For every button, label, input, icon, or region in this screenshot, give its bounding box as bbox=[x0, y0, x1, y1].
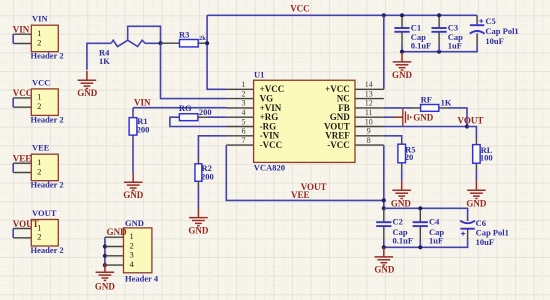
junction bottom rail / C2 ground bbox=[382, 245, 386, 249]
pin 14 of U1 (+VCC) bbox=[325, 80, 373, 94]
svg-text:VIN: VIN bbox=[13, 25, 30, 35]
svg-text:GND: GND bbox=[77, 88, 98, 98]
capacitor C2 0.1uF bbox=[376, 221, 391, 223]
resistor RF 1K bbox=[421, 105, 439, 112]
resistor RG 200 bbox=[179, 114, 198, 121]
resistor RL 100 bbox=[473, 145, 481, 164]
junction VCC rail / C1 bbox=[400, 13, 404, 17]
junction VOUT node bbox=[465, 124, 469, 128]
wire U1 pin 11 (GND) stub bbox=[384, 116, 394, 118]
resistor R5 leads bbox=[401, 139, 403, 170]
svg-text:11: 11 bbox=[365, 108, 373, 117]
svg-text:VCA820: VCA820 bbox=[254, 162, 285, 172]
resistor R3 leads bbox=[161, 42, 208, 44]
pin 10 of U1 (VOUT) bbox=[324, 117, 373, 131]
svg-text:VEE: VEE bbox=[291, 190, 310, 200]
svg-text:GND: GND bbox=[123, 190, 144, 200]
ground symbol at pin 11 (sideways) bbox=[394, 109, 434, 126]
svg-text:VEE: VEE bbox=[13, 154, 32, 164]
resistor R1 leads bbox=[132, 112, 134, 140]
svg-text:1K: 1K bbox=[99, 56, 110, 66]
svg-text:Header 2: Header 2 bbox=[31, 114, 64, 124]
svg-text:GND: GND bbox=[95, 281, 116, 291]
svg-text:GND: GND bbox=[107, 227, 128, 237]
wire net VIN to header P1 bbox=[12, 34, 14, 43]
svg-text:20: 20 bbox=[405, 152, 414, 162]
wire VCC drop to R3 node and U1 pin 1 bbox=[207, 15, 226, 89]
resistor RF leads bbox=[411, 107, 448, 109]
svg-text:1: 1 bbox=[242, 80, 246, 89]
resistor R1 200 bbox=[129, 118, 137, 136]
wire VOUT node to RL bbox=[467, 127, 476, 139]
junction VEE rail end bbox=[382, 198, 386, 202]
svg-text:GND: GND bbox=[374, 265, 395, 275]
junction P5 pin4 bbox=[103, 263, 107, 267]
resistor R5 20 bbox=[398, 144, 406, 163]
wire net VEE to header P3 bbox=[12, 163, 14, 172]
pin 7 of U1 (-VCC) bbox=[242, 136, 283, 150]
junction caps top rail / C2 bbox=[382, 206, 386, 210]
junction top rail / C4 bbox=[418, 206, 422, 210]
svg-text:10uF: 10uF bbox=[485, 36, 503, 46]
svg-text:13: 13 bbox=[365, 89, 373, 98]
capacitor C1 0.1uF bbox=[394, 27, 409, 29]
capacitor C4 1uF bbox=[413, 221, 428, 223]
wire RG left to U1 pin 5 (-RG) bbox=[170, 117, 226, 126]
svg-text:1K: 1K bbox=[441, 98, 452, 108]
svg-text:-VCC: -VCC bbox=[260, 140, 283, 150]
svg-text:200: 200 bbox=[201, 172, 214, 182]
svg-text:2: 2 bbox=[37, 101, 41, 111]
junction VCC rail / pin 14 riser bbox=[382, 13, 386, 17]
ground symbol below R5 bbox=[391, 181, 412, 209]
wire node A to U1 pin 2 (VG) bbox=[161, 43, 227, 98]
svg-text:VOUT: VOUT bbox=[32, 208, 57, 218]
svg-text:1uF: 1uF bbox=[448, 41, 462, 51]
svg-text:VOUT: VOUT bbox=[458, 116, 484, 126]
wire GND bus to header P5 bbox=[104, 237, 106, 267]
connector P2 Header 2 (VCC) bbox=[13, 89, 58, 116]
svg-text:Header 2: Header 2 bbox=[31, 51, 64, 61]
svg-text:GND: GND bbox=[391, 199, 412, 209]
wire C2 to bottom rail bbox=[383, 240, 385, 248]
svg-text:U1: U1 bbox=[254, 70, 264, 80]
svg-text:2: 2 bbox=[37, 166, 41, 176]
pin 5 of U1 (-RG) bbox=[242, 117, 277, 131]
wire U1 pin 7 (-VCC) to VEE rail bbox=[226, 145, 383, 200]
resistor R3 bbox=[180, 40, 199, 47]
svg-text:8: 8 bbox=[367, 136, 371, 145]
pin 6 of U1 (-VIN) bbox=[242, 127, 280, 141]
svg-text:2k: 2k bbox=[199, 35, 206, 42]
junction caps rail / C3 bbox=[437, 50, 441, 54]
wire R4 wiper loop bbox=[128, 26, 161, 43]
svg-text:RF: RF bbox=[421, 95, 432, 105]
svg-text:10: 10 bbox=[365, 117, 373, 126]
pin 12 of U1 (FB) bbox=[338, 99, 372, 113]
svg-text:C1: C1 bbox=[411, 22, 421, 32]
svg-text:4: 4 bbox=[242, 108, 246, 117]
junction caps rail / C1 ground bbox=[400, 50, 404, 54]
wire bottom caps bottom rail bbox=[384, 239, 468, 248]
ground symbol below RL bbox=[466, 181, 487, 209]
svg-text:C5: C5 bbox=[485, 16, 495, 26]
wire C4 to bottom rail bbox=[419, 240, 421, 248]
svg-text:2: 2 bbox=[37, 37, 41, 47]
capacitor C3 1uF bbox=[432, 27, 447, 29]
capacitor C6 Cap Pol1 10uF bbox=[460, 221, 475, 236]
pin 3 of U1 (+VIN) bbox=[242, 99, 282, 113]
node A junction (R4/R3/VG) bbox=[158, 41, 162, 45]
svg-text:4: 4 bbox=[129, 259, 134, 269]
svg-text:14: 14 bbox=[365, 80, 373, 89]
svg-text:Cap Pol1: Cap Pol1 bbox=[485, 26, 518, 36]
svg-text:9: 9 bbox=[367, 127, 371, 136]
svg-text:0.1uF: 0.1uF bbox=[411, 41, 432, 51]
ground symbol below R1 bbox=[123, 173, 144, 200]
pin 8 of U1 (-VCC) bbox=[327, 136, 370, 150]
svg-text:200: 200 bbox=[199, 107, 212, 117]
ground symbol below R4 bbox=[77, 71, 98, 98]
junction P5 pin3 bbox=[103, 254, 107, 258]
svg-text:VCC: VCC bbox=[13, 88, 33, 98]
svg-text:GND: GND bbox=[125, 218, 144, 228]
svg-text:VCC: VCC bbox=[32, 77, 50, 87]
wire U1 pin 12 (FB) to RF bbox=[384, 107, 412, 109]
svg-text:GND: GND bbox=[466, 199, 487, 209]
capacitor C4 leads bbox=[419, 210, 421, 241]
resistor R2 200 bbox=[195, 164, 202, 182]
svg-text:10uF: 10uF bbox=[476, 237, 494, 247]
connector P3 Header 2 (VEE) bbox=[13, 154, 58, 181]
svg-text:100: 100 bbox=[480, 152, 493, 162]
connector P1 Header 2 (VIN) bbox=[13, 25, 58, 52]
wire net VCC to header P2 bbox=[12, 98, 14, 107]
svg-text:C6: C6 bbox=[476, 218, 486, 228]
capacitor C6 leads bbox=[467, 220, 469, 240]
svg-text:0.1uF: 0.1uF bbox=[393, 236, 414, 246]
wire U1 pin 6 (-VIN) to R2 bbox=[198, 136, 226, 158]
resistor R2 leads bbox=[197, 158, 199, 187]
svg-text:12: 12 bbox=[365, 99, 373, 108]
wire U1 pin 9 (VREF) to R5 bbox=[384, 136, 402, 139]
svg-text:R3: R3 bbox=[179, 29, 189, 39]
capacitor C5 Cap Pol1 10uF bbox=[470, 19, 485, 34]
pin 11 of U1 (GND) bbox=[330, 108, 373, 122]
svg-text:Header 4: Header 4 bbox=[125, 274, 159, 284]
wire bottom caps top rail bbox=[384, 208, 468, 220]
capacitor C3 leads bbox=[438, 17, 440, 46]
svg-text:GND: GND bbox=[188, 225, 209, 235]
node B junction (R3/VCC) bbox=[205, 41, 209, 45]
svg-text:Header 2: Header 2 bbox=[31, 245, 64, 255]
junction bottom rail / C4 bbox=[418, 245, 422, 249]
svg-text:2: 2 bbox=[37, 232, 41, 242]
wire RG right to U1 pin 4 (+RG) bbox=[198, 116, 207, 118]
svg-text:VEE: VEE bbox=[32, 143, 50, 153]
wire VCC rail bbox=[207, 14, 477, 16]
junction VCC rail / C3 bbox=[437, 13, 441, 17]
wire RL to ground bbox=[475, 170, 477, 181]
svg-text:VIN: VIN bbox=[134, 97, 151, 107]
svg-text:C2: C2 bbox=[393, 216, 403, 226]
pin 13 of U1 (NC) bbox=[337, 89, 373, 103]
wire R1 to ground bbox=[132, 140, 134, 173]
svg-text:Cap Pol1: Cap Pol1 bbox=[476, 228, 509, 238]
pin 4 of U1 (+RG) bbox=[242, 108, 279, 122]
wire U1 pin 8 (-VCC) riser bbox=[383, 145, 385, 208]
connector P4 Header 2 (VOUT) bbox=[13, 220, 58, 247]
pin 1 of U1 (+VCC) bbox=[242, 80, 285, 94]
junction P5 pin2 bbox=[103, 244, 107, 248]
wire C3 to bottom rail bbox=[438, 45, 440, 51]
svg-text:6: 6 bbox=[242, 127, 246, 136]
wire R2 to ground bbox=[197, 186, 199, 208]
svg-text:VOUT: VOUT bbox=[13, 219, 39, 229]
connector P5 Header 4 (GND) bbox=[105, 228, 152, 273]
svg-text:-VCC: -VCC bbox=[327, 140, 350, 150]
svg-text:3: 3 bbox=[242, 99, 246, 108]
wire R4 left to ground bbox=[87, 43, 111, 70]
pin 9 of U1 (VREF) bbox=[325, 127, 370, 141]
svg-text:200: 200 bbox=[137, 125, 150, 135]
wire VCC rail to U1 pin 14 bbox=[383, 15, 385, 89]
svg-text:C3: C3 bbox=[448, 22, 458, 32]
svg-text:7: 7 bbox=[242, 136, 246, 145]
svg-text:GND: GND bbox=[413, 113, 434, 123]
ground symbol below C2 bbox=[374, 247, 395, 274]
capacitor C2 leads bbox=[383, 210, 385, 241]
svg-text:5: 5 bbox=[242, 117, 246, 126]
resistor R4 1K (pot zigzag) bbox=[111, 40, 145, 46]
resistor RL leads bbox=[475, 138, 477, 170]
wire top caps bottom rail bbox=[402, 45, 477, 51]
wire R5 to ground bbox=[401, 170, 403, 181]
op-amp U1 VCA820 body bbox=[226, 80, 383, 162]
svg-text:C4: C4 bbox=[429, 216, 440, 226]
ground symbol below C1 bbox=[392, 52, 413, 80]
ground symbol below P5 bbox=[95, 263, 116, 292]
svg-text:RG: RG bbox=[179, 103, 192, 113]
wire RF to VOUT node bbox=[448, 108, 467, 127]
svg-text:2: 2 bbox=[242, 89, 246, 98]
wire U1 pin 10 (VOUT) to node bbox=[384, 126, 467, 128]
wire R4 to node A bbox=[145, 42, 160, 44]
wire VIN to U1 pin 3 bbox=[133, 108, 226, 113]
svg-text:1uF: 1uF bbox=[429, 236, 443, 246]
ground symbol below R2 bbox=[188, 208, 209, 235]
svg-text:VCC: VCC bbox=[290, 4, 310, 14]
capacitor C1 leads bbox=[401, 17, 403, 46]
capacitor C5 leads bbox=[476, 15, 478, 46]
svg-text:GND: GND bbox=[392, 70, 413, 80]
wire net VOUT to header P4 bbox=[12, 229, 14, 238]
svg-text:VIN: VIN bbox=[32, 14, 48, 24]
svg-text:Header 2: Header 2 bbox=[31, 180, 64, 190]
pin 2 of U1 (VG) bbox=[242, 89, 274, 103]
